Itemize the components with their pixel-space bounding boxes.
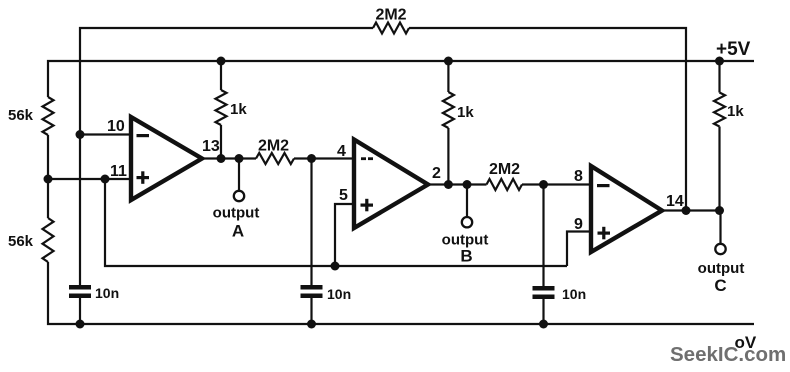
svg-text:14: 14 (666, 193, 684, 210)
svg-text:1k: 1k (230, 101, 247, 118)
svg-text:SeekIC.com: SeekIC.com (670, 343, 786, 366)
svg-text:2: 2 (432, 165, 441, 182)
svg-text:1k: 1k (727, 103, 744, 120)
svg-text:10n: 10n (562, 286, 586, 302)
svg-text:C: C (714, 276, 726, 295)
svg-text:1k: 1k (457, 104, 474, 121)
svg-text:13: 13 (202, 138, 220, 155)
svg-text:8: 8 (574, 168, 583, 185)
svg-text:A: A (232, 222, 244, 241)
svg-text:10: 10 (107, 118, 125, 135)
svg-text:5: 5 (339, 187, 348, 204)
svg-text:2M2: 2M2 (375, 7, 406, 24)
svg-text:4: 4 (337, 143, 346, 160)
svg-text:11: 11 (110, 163, 127, 180)
svg-text:2M2: 2M2 (489, 161, 520, 178)
svg-text:9: 9 (574, 216, 583, 233)
svg-text:10n: 10n (327, 286, 351, 302)
svg-text:output: output (213, 205, 260, 222)
svg-text:56k: 56k (8, 107, 34, 124)
svg-text:2M2: 2M2 (258, 138, 289, 155)
svg-text:B: B (460, 247, 472, 266)
svg-text:output: output (698, 260, 745, 277)
svg-text:10n: 10n (95, 285, 119, 301)
svg-text:56k: 56k (8, 233, 34, 250)
